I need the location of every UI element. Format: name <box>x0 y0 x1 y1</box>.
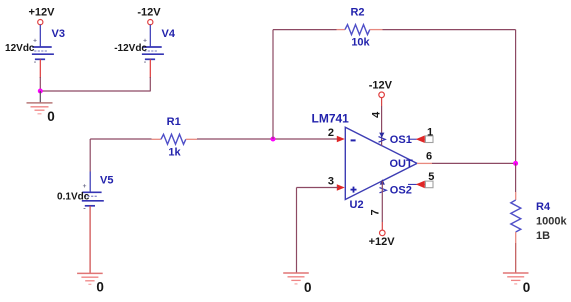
wire junction to ground <box>39 91 41 103</box>
svg-text:OS1: OS1 <box>390 134 412 146</box>
OS2 terminal square <box>425 181 433 188</box>
voltage source V5 <box>82 172 104 213</box>
svg-text:OUT: OUT <box>390 158 414 170</box>
svg-text:R2: R2 <box>350 7 364 19</box>
svg-text:V3: V3 <box>52 28 65 40</box>
resistor R4 <box>511 192 521 243</box>
OS1 pin line <box>409 138 418 140</box>
wire R1 row left (to V5) <box>90 138 151 140</box>
voltage source V4 <box>142 25 164 78</box>
wire V3 bottom to junction <box>39 77 41 91</box>
wire V4 to V3 junction horizontal <box>40 90 150 92</box>
ground 0 (pin3) <box>283 273 309 284</box>
svg-text:R4: R4 <box>536 201 551 213</box>
svg-text:7: 7 <box>369 209 381 215</box>
wire right vertical down to output <box>515 30 517 164</box>
svg-text:+12V: +12V <box>29 7 56 19</box>
svg-text:0: 0 <box>47 109 55 124</box>
svg-text:-12Vdc: -12Vdc <box>114 43 147 54</box>
svg-text:12Vdc: 12Vdc <box>5 43 35 54</box>
svg-text:1: 1 <box>427 126 433 138</box>
wire pin3 to ground corner <box>297 187 339 189</box>
svg-text:R1: R1 <box>167 116 181 128</box>
wire junction up to R2 <box>272 30 274 139</box>
wire pin7 <box>381 181 383 222</box>
svg-text:0: 0 <box>304 280 312 295</box>
svg-text:+: + <box>83 183 87 190</box>
svg-text:2: 2 <box>328 127 334 139</box>
wire pin4 <box>381 98 383 106</box>
wire output to node <box>432 162 516 164</box>
svg-text:0: 0 <box>96 280 104 295</box>
inverting input minus <box>351 139 356 141</box>
pin 7 arrowhead <box>380 179 385 184</box>
power symbol -12V (top of V4) <box>137 7 161 25</box>
junction node (V3/V4/ground) <box>38 89 43 94</box>
svg-text:+12V: +12V <box>369 236 396 248</box>
OS1 arrow <box>416 135 425 143</box>
svg-text:1k: 1k <box>168 147 181 159</box>
wire V4 bottom down <box>149 77 151 91</box>
svg-text:LM741: LM741 <box>312 112 350 126</box>
svg-text:V4: V4 <box>162 28 176 40</box>
wire node down to R4 <box>515 163 517 192</box>
op-amp U2 triangle <box>345 127 417 199</box>
junction node (output/R2/R4) <box>513 161 518 166</box>
voltage source V3 <box>32 25 54 78</box>
pin 3 arrow <box>337 184 345 191</box>
wire R2 row left <box>273 29 337 31</box>
output pin stub <box>417 162 432 164</box>
OS2 arrow <box>416 181 425 189</box>
resistor R2 <box>337 25 383 35</box>
pin 2 arrow <box>337 136 345 143</box>
pin OS2 chevron <box>380 188 387 193</box>
svg-text:5: 5 <box>428 171 434 183</box>
wire R1 to pin2 node <box>197 138 339 140</box>
svg-text:-12V: -12V <box>137 7 161 19</box>
junction node (R1/R2/pin2) <box>271 137 276 142</box>
power symbol -12V (pin 4) <box>369 80 393 98</box>
OS2 pin line <box>408 183 418 185</box>
svg-text:0: 0 <box>523 280 531 295</box>
wire V5 to ground <box>89 206 91 274</box>
svg-text:U2: U2 <box>350 199 364 211</box>
svg-text:1000k: 1000k <box>536 215 567 227</box>
ground 0 (under V3/V4) <box>27 103 53 114</box>
svg-text:-12V: -12V <box>369 80 393 92</box>
svg-text:0.1Vdc: 0.1Vdc <box>57 191 90 202</box>
wire R2 right to output node <box>383 29 516 31</box>
svg-text:V5: V5 <box>100 175 113 187</box>
non-inverting input plus <box>351 187 357 193</box>
svg-text:3: 3 <box>328 176 334 188</box>
resistor R1 <box>152 134 198 144</box>
pin OS1 chevron <box>379 137 386 143</box>
OS1 terminal square <box>425 136 433 143</box>
svg-text:OS2: OS2 <box>390 184 412 196</box>
ground 0 (under R4) <box>503 273 529 284</box>
power symbol +12V (top of V3) <box>29 7 56 25</box>
wire R4 to ground <box>515 243 517 273</box>
ground 0 (under V5) <box>77 273 103 284</box>
power symbol +12V (pin 7) <box>369 230 396 248</box>
svg-text:4: 4 <box>371 111 383 118</box>
pin 4 arrowhead <box>379 133 384 138</box>
svg-text:10k: 10k <box>351 36 370 48</box>
svg-text:6: 6 <box>426 150 432 162</box>
svg-text:1B: 1B <box>536 230 550 242</box>
